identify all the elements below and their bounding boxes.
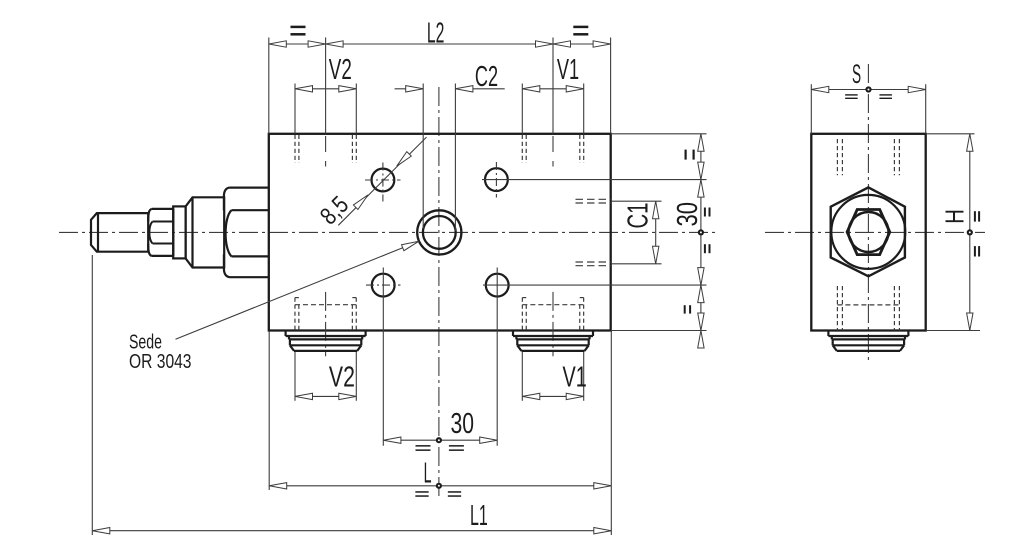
screw large hex nut against block bbox=[230, 187, 269, 189]
C1 port hidden lines (right face) bbox=[576, 198, 611, 200]
hex nut inscribed circle bbox=[831, 195, 905, 269]
label 8,5 rotated bbox=[315, 191, 354, 230]
svg-text:S: S bbox=[852, 59, 861, 89]
adjusting screw body bbox=[186, 197, 225, 267]
V2 bottom port hidden thread lines bbox=[294, 298, 296, 331]
valve body block (side view) bbox=[811, 134, 925, 331]
svg-text:L: L bbox=[424, 458, 432, 490]
front view vertical centreline bbox=[438, 87, 440, 500]
V2 top port hidden thread lines bbox=[294, 135, 296, 163]
label H rotated bbox=[939, 209, 969, 224]
extension line block top edge right bbox=[611, 133, 707, 135]
C2 dimension (seat bore diameter) bbox=[395, 88, 424, 90]
top-right hole bbox=[485, 168, 508, 191]
30 bottom dimension between lower holes bbox=[383, 439, 497, 441]
inner bore circle bbox=[849, 212, 889, 252]
extension line block right edge up bbox=[610, 38, 612, 134]
centre dot on right 30 dimension bbox=[698, 229, 704, 235]
svg-text:V1: V1 bbox=[557, 54, 579, 86]
extension line screw tip down bbox=[91, 255, 93, 535]
side view top port hidden lines bbox=[836, 139, 838, 175]
extension line V1 port axis up bbox=[552, 38, 554, 134]
inner hexagon (wrench flats) bbox=[847, 210, 890, 255]
C2 extension lines down to seat bore bbox=[422, 84, 424, 229]
svg-text:L1: L1 bbox=[470, 500, 488, 532]
front view horizontal centreline bbox=[59, 231, 716, 233]
label 30 rotated bbox=[672, 202, 704, 227]
V1 top dimension bbox=[522, 88, 583, 90]
V1 bottom port hidden thread lines bbox=[521, 298, 523, 331]
adjusting screw washer ring bbox=[173, 206, 185, 258]
svg-text:H: H bbox=[939, 209, 969, 224]
L2 chain dimension line (top row) bbox=[269, 43, 611, 45]
H dimension (right of side view) bbox=[926, 133, 975, 135]
side view vertical centreline bbox=[867, 64, 869, 360]
equal mark right (L2 row) bbox=[573, 26, 588, 29]
vertical 30 chain dimension line right of front view bbox=[700, 134, 702, 331]
bottom-left hole bbox=[372, 274, 395, 297]
bottom-right hole crosshair / extensions bbox=[483, 284, 707, 286]
svg-text:8,5: 8,5 bbox=[315, 191, 354, 230]
extension line block bottom edge right bbox=[611, 330, 707, 332]
extension line V2 port axis up bbox=[325, 38, 327, 134]
adjusting screw tip bbox=[91, 213, 148, 252]
8.5 hole diameter dimension diagonal bbox=[338, 137, 426, 225]
L1 overall dimension bbox=[92, 530, 611, 532]
svg-text:V1: V1 bbox=[563, 361, 587, 393]
S dimension (top of side view) bbox=[811, 89, 925, 91]
svg-text:C1: C1 bbox=[623, 203, 655, 229]
large hex nut outer hexagon (side view) bbox=[831, 187, 905, 276]
top-left hole crosshair bbox=[365, 179, 401, 181]
equal marks right chain bbox=[684, 150, 686, 160]
svg-text:V2: V2 bbox=[329, 361, 355, 393]
svg-text:L2: L2 bbox=[427, 18, 445, 50]
extension line block left edge down bbox=[268, 332, 270, 490]
bottom-left hole crosshair / extension down to 30 dim bbox=[366, 284, 401, 286]
L dimension bbox=[269, 485, 611, 487]
svg-text:C2: C2 bbox=[475, 61, 498, 93]
V2 bottom dimension bbox=[295, 395, 356, 397]
svg-text:OR 3043: OR 3043 bbox=[129, 351, 192, 373]
extension line block right edge down bbox=[610, 331, 612, 536]
svg-text:V2: V2 bbox=[329, 54, 352, 86]
top-right hole crosshair / extension to right chain bbox=[482, 179, 707, 181]
svg-text:30: 30 bbox=[450, 408, 474, 440]
adjusting screw small hex nut bbox=[152, 208, 174, 210]
top-left hole 8.5 bbox=[372, 169, 395, 192]
V2 port plug bbox=[285, 331, 287, 337]
C1 dimension line bbox=[655, 201, 657, 264]
V1 port plug bbox=[512, 331, 514, 337]
bottom-right hole bbox=[486, 274, 509, 297]
leader line to seat bbox=[176, 241, 419, 339]
equal mark left (L2 row) bbox=[291, 26, 306, 29]
V1 top port hidden thread lines bbox=[521, 135, 523, 163]
side view bottom port hidden lines bbox=[836, 286, 838, 330]
svg-text:30: 30 bbox=[672, 202, 704, 227]
label C1 rotated bbox=[623, 203, 655, 229]
central seat bore (Sede OR 3043) bbox=[417, 210, 461, 254]
side view port plug bbox=[827, 331, 829, 337]
side view horizontal centreline bbox=[765, 231, 985, 233]
V1 bottom dimension bbox=[522, 395, 583, 397]
valve body block (front view) bbox=[269, 134, 611, 331]
extension line block left edge up bbox=[268, 38, 270, 134]
V2 top dimension bbox=[295, 88, 356, 90]
C1 extension lines bbox=[611, 200, 662, 202]
